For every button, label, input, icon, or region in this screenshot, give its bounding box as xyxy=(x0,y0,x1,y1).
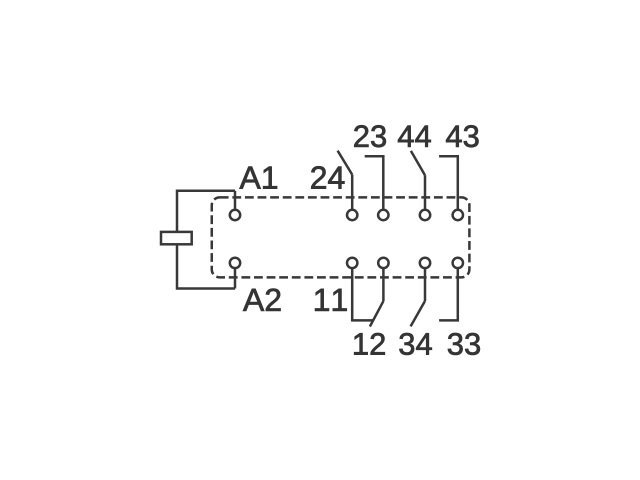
relay outline (dashed enclosure) xyxy=(212,197,470,277)
coil K1 xyxy=(161,232,192,244)
pin A2 xyxy=(230,258,240,268)
wire coil top xyxy=(177,191,235,232)
label 11 xyxy=(315,289,347,311)
label 33 xyxy=(448,333,480,355)
pin 24 xyxy=(347,210,357,220)
pin 11 xyxy=(347,258,357,268)
contact blade 24 xyxy=(338,151,353,175)
wire A2 stub xyxy=(234,268,237,288)
pin 23 xyxy=(378,210,388,220)
wire pin43 stub xyxy=(439,156,458,210)
label A1 xyxy=(240,167,278,189)
contact blade 12 xyxy=(370,301,384,326)
wire coil bottom xyxy=(177,244,235,288)
label 24 xyxy=(311,166,344,188)
label 43 xyxy=(446,125,478,147)
pin 12 xyxy=(378,258,388,268)
wire pin34 stub xyxy=(424,268,427,301)
pin 44 xyxy=(420,210,430,220)
wire A1 stub xyxy=(234,191,237,210)
wire pin11 stub xyxy=(352,268,373,320)
label 12 xyxy=(354,333,385,355)
pin A1 xyxy=(230,210,240,220)
wire pin23 stub xyxy=(365,156,384,210)
pin 34 xyxy=(420,258,430,268)
wire pin44 stub xyxy=(424,175,427,210)
pin 43 xyxy=(453,210,463,220)
wire pin33 stub xyxy=(439,268,458,320)
wire pin24 stub xyxy=(351,175,354,210)
label 23 xyxy=(354,125,386,147)
contact blade 34 xyxy=(411,301,425,326)
pin 33 xyxy=(453,258,463,268)
label 34 xyxy=(399,333,431,355)
wire pin12 stub xyxy=(382,268,385,301)
contact blade 44 xyxy=(411,151,425,175)
label 44 xyxy=(398,126,431,147)
label A2 xyxy=(243,289,281,311)
